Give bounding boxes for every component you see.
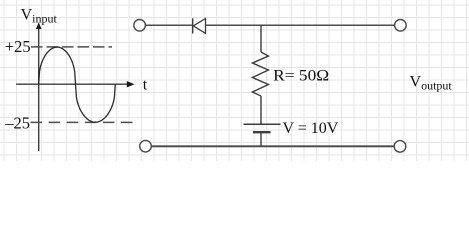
V axis (input graph vertical axis) bbox=[36, 22, 42, 151]
terminal circle bottom-right bbox=[394, 141, 406, 153]
terminal circle top-right bbox=[395, 20, 407, 32]
terminal circle top-left bbox=[134, 20, 146, 32]
svg-text:Voutput: Voutput bbox=[410, 74, 453, 93]
bottom wire bbox=[151, 145, 394, 147]
svg-text:t: t bbox=[143, 77, 148, 94]
svg-text:V = 10V: V = 10V bbox=[283, 120, 339, 137]
dashed level line -25 bbox=[31, 121, 139, 123]
svg-text:–25: –25 bbox=[4, 114, 30, 133]
terminal circle bottom-left bbox=[140, 140, 152, 152]
wire top-left to diode bbox=[146, 24, 193, 26]
battery V: long positive plate bbox=[244, 123, 281, 125]
sine waveform bbox=[39, 47, 116, 122]
wire resistor to battery bbox=[260, 96, 262, 124]
diode D1 bbox=[193, 18, 206, 33]
battery V: short negative plate bbox=[253, 131, 271, 133]
t axis (input graph horizontal axis) bbox=[16, 81, 135, 87]
svg-text:+25: +25 bbox=[5, 37, 31, 56]
resistor R (zigzag) bbox=[252, 52, 268, 96]
wire diode to top-right terminal bbox=[206, 24, 395, 26]
wire battery to bottom wire bbox=[260, 132, 262, 146]
wire top junction down to resistor bbox=[260, 25, 262, 52]
svg-text:R= 50Ω: R= 50Ω bbox=[273, 68, 329, 85]
svg-text:Vinput: Vinput bbox=[21, 7, 58, 26]
dashed level line +25 bbox=[31, 46, 112, 48]
